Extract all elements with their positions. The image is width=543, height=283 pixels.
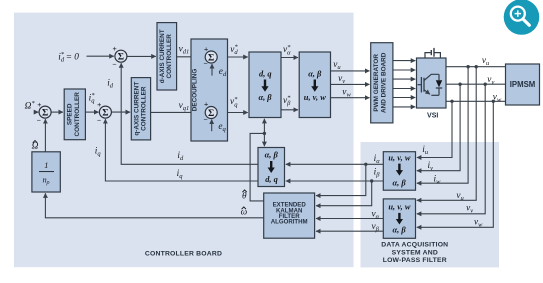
wire: theta into dq-ab bottom xyxy=(263,119,265,134)
wire: vv sense drop and into uvw-ab 2 xyxy=(417,84,485,214)
svg-text:−: − xyxy=(203,59,207,68)
svg-text:−: − xyxy=(203,115,207,124)
svg-text:SYSTEM AND: SYSTEM AND xyxy=(392,249,438,256)
node: iu tap on phase w xyxy=(450,100,453,103)
icon: zoom button xyxy=(504,0,540,35)
wire: speed ref into speed sum xyxy=(35,111,39,113)
wire: ed into decoupling sum xyxy=(211,64,213,76)
wire: theta-hat from EKF up xyxy=(250,133,264,201)
wire: vu to pwm xyxy=(331,70,370,72)
svg-text:PWM GENERATOR: PWM GENERATOR xyxy=(373,54,380,112)
wire: i*d ref into d-sum xyxy=(87,55,114,57)
wire: vb* to ab-uvw block xyxy=(281,109,298,111)
block: VSI xyxy=(417,58,447,108)
svg-text:ALGORITHM: ALGORITHM xyxy=(271,219,308,226)
svg-text:vv: vv xyxy=(487,75,494,86)
node: iv tap on phase v xyxy=(458,83,461,86)
summing junction: speed xyxy=(39,50,217,118)
svg-text:−: − xyxy=(112,60,116,69)
panel: data acquisition xyxy=(361,142,500,267)
block: alpha-beta to uvw transform xyxy=(299,52,330,118)
wire: theta into ab-dq top xyxy=(263,133,265,146)
svg-text:IPMSM: IPMSM xyxy=(510,80,536,89)
svg-text:Σ: Σ xyxy=(102,108,108,119)
label: hats xyxy=(33,141,247,210)
node: vv tap on phase v xyxy=(484,83,487,86)
icon: thick down arrow ab-dq xyxy=(270,161,272,168)
svg-text:DATA ACQUISITION: DATA ACQUISITION xyxy=(381,241,448,248)
transistor IGBT body bar xyxy=(423,78,425,92)
wire: q-sum to q-axis controller xyxy=(111,111,130,113)
svg-text:AND DRIVE BOARD: AND DRIVE BOARD xyxy=(380,52,387,113)
wire: iv sense drop and into uvw-ab xyxy=(417,84,460,171)
label: pwm text xyxy=(373,52,387,113)
label: d-axis controller text xyxy=(159,29,173,83)
wire: speed sum to speed controller xyxy=(51,111,63,113)
svg-text:DECOUPLING: DECOUPLING xyxy=(192,69,199,112)
label: q-axis controller text xyxy=(133,82,147,136)
block: dq to alpha-beta transform xyxy=(249,52,281,118)
svg-text:Σ: Σ xyxy=(118,52,124,63)
block: decoupling xyxy=(191,39,228,141)
diode D freewheel leads xyxy=(438,74,440,80)
block: alpha-beta to dq transform xyxy=(258,148,285,187)
node: i-alpha junction xyxy=(364,163,367,166)
wire: phase w VSI to IPMSM xyxy=(446,100,506,102)
wire: i-beta branch to EKF xyxy=(316,181,372,206)
label: EKF text xyxy=(271,202,308,226)
wire: vd* decoupling to dq-ab block xyxy=(217,56,248,58)
wire: va* to ab-uvw block xyxy=(281,57,298,59)
svg-text:+: + xyxy=(204,44,208,53)
label: ab/uvw transform texts xyxy=(304,69,326,102)
svg-text:u, v, w: u, v, w xyxy=(388,153,410,162)
block: pwm generator and drive board xyxy=(371,43,393,123)
svg-text:+: + xyxy=(204,100,208,109)
label: plus-minus signs xyxy=(37,44,209,124)
node: vw tap on phase w xyxy=(492,100,495,103)
block: q-axis current controller xyxy=(131,78,150,140)
wire: vd1 d-axis ctrl to decoupling sum xyxy=(177,56,205,58)
transistor IGBT gate bar xyxy=(420,77,422,93)
label: data acquisition caption xyxy=(381,241,448,264)
wire: iu sense drop and into uvw-ab xyxy=(417,101,452,157)
wire: i-alpha to ab-dq block xyxy=(286,163,384,165)
svg-text:VSI: VSI xyxy=(427,112,438,119)
capacitor C plates xyxy=(430,50,432,55)
diode D cathode bar xyxy=(436,87,442,89)
svg-text:Σ: Σ xyxy=(208,52,214,63)
transistor IGBT gate lead xyxy=(418,84,422,86)
node: vu tap on phase u xyxy=(475,65,478,68)
wire: vu sense drop and into uvw-ab 2 xyxy=(417,67,476,201)
svg-text:−: − xyxy=(97,115,101,124)
svg-text:+: + xyxy=(112,44,116,53)
wire: id feedback to d-sum xyxy=(121,63,258,164)
svg-text:Ω: Ω xyxy=(32,142,39,152)
wire: v-alpha to EKF xyxy=(316,218,383,220)
svg-text:1: 1 xyxy=(44,161,48,170)
svg-text:CONTROLLER BOARD: CONTROLLER BOARD xyxy=(145,250,222,257)
wire: vq* decoupling to dq-ab block xyxy=(217,112,248,114)
block: d-axis current controller xyxy=(157,23,177,90)
node: i-beta junction xyxy=(370,179,373,182)
label: 1/np fraction xyxy=(42,161,49,186)
wire: omega-hat from EKF to 1/np xyxy=(45,193,263,218)
svg-text:v*α: v*α xyxy=(283,44,291,57)
svg-text:α, β: α, β xyxy=(258,93,272,102)
wire: v-beta to EKF xyxy=(316,230,383,232)
svg-text:θ: θ xyxy=(242,192,247,202)
wire: iq* speed ctrl to q-sum xyxy=(85,111,98,113)
node: theta branch junction xyxy=(263,132,266,135)
svg-text:+: + xyxy=(37,100,41,109)
svg-text:u, v, w: u, v, w xyxy=(388,203,410,212)
svg-text:u, v, w: u, v, w xyxy=(304,93,326,102)
wire: vw sense drop and into uvw-ab 2 xyxy=(417,101,494,227)
svg-text:d-AXIS CURRENT: d-AXIS CURRENT xyxy=(159,29,166,83)
svg-text:CONTROLLER: CONTROLLER xyxy=(166,34,173,79)
capacitor C dc-link wiring xyxy=(425,53,431,58)
wire: Omega-hat 1/np to speed sum xyxy=(44,119,46,152)
svg-text:α, β: α, β xyxy=(393,226,407,235)
wire: phase u VSI to IPMSM xyxy=(446,66,506,68)
label: uvw/ab current transform texts xyxy=(388,153,410,187)
svg-text:d, q: d, q xyxy=(265,175,278,184)
block: speed controller xyxy=(64,89,85,140)
wire: d-sum to d-axis controller xyxy=(127,55,156,57)
wire: vv to pwm xyxy=(331,83,370,85)
svg-text:v*β: v*β xyxy=(283,94,291,107)
icon: thick down arrow uvw-ab 2 xyxy=(398,213,400,220)
svg-text:SPEED: SPEED xyxy=(67,103,74,125)
wire: pwm gate signals to VSI xyxy=(393,60,415,62)
wire: vq1 q-axis ctrl to decoupling sum xyxy=(151,111,205,113)
label: uvw/ab voltage transform texts xyxy=(388,203,410,235)
icon: thick down arrow ab-uvw xyxy=(314,80,316,87)
svg-text:Σ: Σ xyxy=(42,108,48,119)
svg-text:α, β: α, β xyxy=(308,69,322,78)
svg-text:CONTROLLER: CONTROLLER xyxy=(74,92,81,137)
panel: controller board xyxy=(14,13,354,268)
icon: thick down arrow dq-ab xyxy=(264,80,266,87)
icon: thick down arrow uvw-ab 1 xyxy=(398,164,400,171)
wire: phase v VSI to IPMSM xyxy=(446,83,506,85)
label: ab/dq transform texts xyxy=(265,151,279,185)
svg-text:vw: vw xyxy=(493,93,502,104)
svg-text:q-AXIS CURRENT: q-AXIS CURRENT xyxy=(133,82,140,136)
svg-text:α, β: α, β xyxy=(265,151,279,160)
svg-text:v*q: v*q xyxy=(230,96,238,109)
wire: iw sense drop and into uvw-ab xyxy=(417,67,468,184)
transistor IGBT collector xyxy=(424,74,439,80)
block: 1/np xyxy=(32,152,60,192)
label: sigma glyphs xyxy=(42,52,214,119)
svg-text:v*d: v*d xyxy=(230,43,238,56)
svg-text:vu: vu xyxy=(482,56,490,67)
transistor IGBT emitter xyxy=(431,94,439,96)
block: IPMSM xyxy=(506,64,540,105)
wire: i-beta to ab-dq block xyxy=(286,180,384,182)
svg-text:Σ: Σ xyxy=(208,108,214,119)
block: uvw to alpha-beta current transform xyxy=(383,152,415,191)
transistor IGBT emitter arrow xyxy=(424,90,430,95)
label: speed controller text xyxy=(67,92,81,137)
block: extended kalman filter xyxy=(264,193,315,238)
svg-text:−: − xyxy=(37,115,41,124)
block: uvw to alpha-beta voltage transform xyxy=(383,199,415,238)
svg-text:LOW-PASS FILTER: LOW-PASS FILTER xyxy=(383,257,447,264)
svg-text:d, q: d, q xyxy=(259,69,272,78)
wire: vw to pwm xyxy=(331,97,370,99)
node: iw tap on phase u xyxy=(466,65,469,68)
svg-text:i*q: i*q xyxy=(89,92,96,105)
svg-text:CONTROLLER: CONTROLLER xyxy=(141,86,148,131)
svg-text:α, β: α, β xyxy=(393,178,407,187)
svg-text:+: + xyxy=(97,100,101,109)
wire: iq feedback to q-sum xyxy=(105,119,258,181)
svg-text:i*d= 0: i*d= 0 xyxy=(58,51,79,64)
label: dq/ab transform texts xyxy=(258,69,272,102)
diode D triangle xyxy=(436,80,442,87)
wire: eq into decoupling sum xyxy=(211,120,213,132)
wire: i-alpha branch to EKF xyxy=(316,164,366,195)
